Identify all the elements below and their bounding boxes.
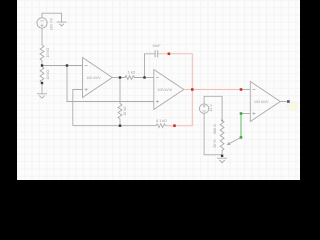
junction dots dark — [41, 64, 223, 157]
pink wire cap to corner — [158, 54, 192, 126]
resistor R4 10k vertical — [118, 78, 122, 126]
pot top connection — [221, 120, 223, 122]
svg-text:10 kΩ: 10 kΩ — [46, 48, 50, 58]
wire node A to op-amp U1 minus — [42, 65, 83, 67]
svg-text:10 kΩ: 10 kΩ — [123, 106, 127, 116]
svg-text:100 kV/V: 100 kV/V — [86, 76, 101, 80]
wire node D up to capacitor C1 — [145, 54, 155, 78]
green dot U3 plus — [240, 112, 243, 115]
op-amp U3 — [250, 82, 280, 122]
green wire pot wiper to U3 plus — [240, 114, 242, 138]
svg-text:100 kV/V: 100 kV/V — [254, 100, 269, 104]
green probe dots — [240, 112, 243, 139]
blue probe dot U3 output — [287, 100, 290, 103]
node pot bottom — [221, 155, 223, 157]
svg-text:50 %: 50 % — [213, 139, 217, 148]
red dot cap wire — [168, 53, 171, 56]
potentiometer body — [220, 120, 224, 155]
svg-text:10nF: 10nF — [152, 44, 161, 48]
red dot before U3 — [240, 88, 243, 91]
ground G2 — [37, 94, 47, 99]
wire V2 top to pot top — [204, 96, 222, 120]
svg-text:1 kΩ: 1 kΩ — [128, 70, 136, 74]
node D — [143, 76, 145, 78]
svg-text:200 mV: 200 mV — [50, 17, 54, 30]
ground G3 — [217, 158, 227, 163]
node C — [119, 76, 121, 78]
svg-text:680 Ω: 680 Ω — [213, 124, 217, 134]
red probe dots — [168, 53, 243, 128]
wire V1 top to ground — [42, 13, 62, 22]
node R4 bottom — [119, 125, 121, 127]
wire U1 plus input feedback — [73, 90, 83, 126]
wire U2 output gray tail to U3 minus — [241, 89, 250, 91]
svg-text:8.1 kΩ: 8.1 kΩ — [156, 119, 167, 123]
wire wiper to U3 plus (gray part) — [241, 113, 250, 115]
voltage source V1 — [37, 18, 47, 28]
wire U1 output to node C — [112, 77, 120, 79]
wire node B down to op-amp U2 plus — [67, 66, 154, 102]
resistor R1 10k — [40, 45, 44, 61]
pink probed net wires — [158, 54, 241, 126]
node A — [41, 64, 43, 66]
resistor R2 10k — [40, 67, 44, 83]
pot wiper arrow — [228, 137, 242, 144]
node R2 bottom — [41, 82, 43, 84]
svg-text:10 kΩ: 10 kΩ — [46, 70, 50, 80]
svg-text:100 kV/V: 100 kV/V — [158, 88, 173, 92]
bottom feedback rail — [73, 125, 156, 127]
op-amp U2 — [154, 70, 184, 110]
pink wire U2 output — [184, 89, 241, 91]
green dot wiper — [240, 136, 243, 139]
left black bar — [0, 0, 17, 180]
voltage source V2 — [199, 104, 208, 113]
canvas background — [17, 0, 300, 180]
ground G1 — [57, 22, 67, 26]
wire U3 output — [280, 101, 288, 103]
pink wire 8.1k to dot — [167, 125, 175, 127]
svg-text:12 V: 12 V — [209, 104, 213, 112]
wire R2 to ground — [41, 83, 43, 94]
right black bar — [300, 0, 320, 180]
wire V2 bottom to ground — [204, 113, 222, 155]
resistor R3 1k — [120, 76, 144, 80]
node B — [66, 64, 68, 66]
red dot U2 output node — [191, 88, 194, 91]
op-amp U1 — [83, 58, 113, 98]
resistor R5 8.1k — [156, 124, 173, 128]
touch highlight — [286, 101, 299, 111]
capacitor C1 plates — [155, 50, 158, 57]
wire R1 to node A — [41, 61, 43, 66]
wire node D to U2 minus — [145, 77, 154, 79]
red dot bottom rail — [173, 124, 176, 127]
wire V1 bottom to R1 — [41, 28, 43, 45]
